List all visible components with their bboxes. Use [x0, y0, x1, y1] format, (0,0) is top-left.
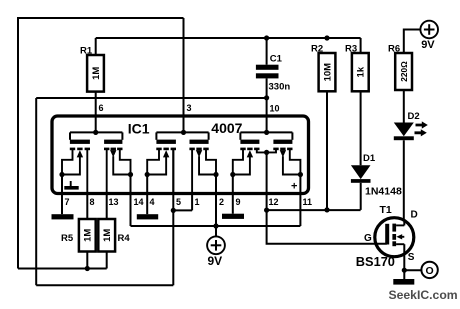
- resistor R5: [61, 219, 96, 252]
- svg-text:4: 4: [150, 197, 155, 207]
- svg-text:SeekIC.com: SeekIC.com: [389, 288, 458, 302]
- wire T1 source lead: [402, 254, 407, 273]
- node R2 top junction: [324, 35, 329, 40]
- svg-text:6: 6: [99, 103, 104, 113]
- svg-text:1M: 1M: [102, 229, 113, 242]
- svg-text:D: D: [411, 210, 418, 221]
- svg-text:12: 12: [269, 197, 279, 207]
- wire pin 9 rail: [232, 175, 234, 214]
- NMOS Q6 (pins 10,12,11 area): [267, 140, 303, 177]
- svg-text:9V: 9V: [208, 254, 223, 268]
- wire pin1 to pin5 link: [171, 195, 192, 213]
- svg-text:220Ω: 220Ω: [399, 61, 409, 82]
- pin labels top 6 3 10: [99, 103, 280, 113]
- capacitor C1: [256, 54, 290, 93]
- diode D1 1N4148: [351, 153, 402, 210]
- svg-text:9V: 9V: [421, 39, 435, 51]
- wire R1 bottom to pin 6: [95, 92, 97, 133]
- ground T1 source: [393, 270, 414, 284]
- svg-text:T1: T1: [380, 204, 392, 216]
- svg-text:10M: 10M: [322, 63, 333, 82]
- svg-text:S: S: [408, 252, 415, 263]
- svg-text:R4: R4: [118, 233, 131, 244]
- svg-text:R6: R6: [388, 44, 400, 55]
- wire pin 14 rail: [130, 175, 132, 195]
- svg-text:14: 14: [134, 197, 144, 207]
- wire supply rail y38: [96, 38, 361, 55]
- battery 9V top right: [420, 21, 438, 52]
- ground pin 9: [222, 214, 244, 219]
- wire R5 bottom lead: [86, 252, 88, 269]
- ground pin 4: [137, 214, 158, 219]
- resistor R4: [98, 219, 130, 252]
- svg-text:BS170: BS170: [356, 254, 395, 269]
- svg-text:2: 2: [219, 197, 224, 207]
- transistor T1 BS170: [356, 204, 418, 269]
- svg-text:1k: 1k: [356, 66, 367, 77]
- wire R5/R4 bottom rail: [18, 266, 107, 271]
- resistor R3: [345, 44, 369, 92]
- wire pin 11 rail: [299, 175, 301, 195]
- wire pin 4 rail: [146, 175, 148, 215]
- wire feedback y98 loop: [36, 98, 266, 285]
- resistor R6: [388, 44, 412, 91]
- wire pin 10 gate tee: [240, 130, 292, 140]
- svg-text:1M: 1M: [91, 67, 102, 80]
- wire pin 6 gate tee: [70, 130, 122, 140]
- svg-text:13: 13: [109, 197, 119, 207]
- wire C1 bottom to pin 10: [264, 78, 269, 132]
- PMOS Q3 (pins 3,4,5 area): [145, 140, 176, 195]
- svg-text:IC1: IC1: [128, 120, 150, 136]
- PMOS Q1 (pins 6,7,8 area): [59, 140, 90, 195]
- svg-text:G: G: [364, 233, 372, 244]
- wire pin 5 lead: [172, 150, 174, 195]
- output terminal O: [421, 262, 437, 278]
- svg-text:D2: D2: [408, 111, 420, 122]
- wire R4 top lead from pin 13: [106, 195, 108, 220]
- svg-text:R2: R2: [311, 44, 323, 55]
- watermark SeekIC.com: [389, 288, 458, 302]
- op-amp IC1 4007 outline: [52, 116, 309, 194]
- wire C1 top lead: [264, 35, 269, 64]
- svg-text:4007: 4007: [211, 120, 242, 136]
- NMOS Q4 (pins 3,1,2 area): [189, 140, 218, 195]
- svg-text:+: +: [291, 181, 297, 193]
- wire outer top loop: [18, 17, 184, 269]
- ground pin 7: [52, 214, 74, 219]
- wire R3 bottom to D1: [360, 91, 362, 165]
- svg-text:9: 9: [236, 197, 241, 207]
- wire pin 3 gate tee: [156, 130, 208, 140]
- svg-text:R3: R3: [345, 44, 357, 55]
- wire bottom loop to pin 5: [36, 195, 173, 286]
- svg-text:5: 5: [176, 197, 181, 207]
- wire pin 7 rail: [61, 175, 63, 215]
- wire R6 top to 9V battery: [404, 30, 421, 54]
- NMOS Q2 (pins 6,13,14 area): [104, 140, 133, 195]
- svg-text:8: 8: [90, 197, 95, 207]
- wire top loop to pin 3: [183, 18, 185, 132]
- wire R4 bottom lead: [106, 252, 108, 269]
- svg-text:R5: R5: [61, 233, 74, 244]
- svg-text:O: O: [426, 265, 434, 277]
- wire to output terminal: [404, 269, 421, 271]
- svg-text:1: 1: [195, 197, 200, 207]
- wire pin12 to R2/D1 junction: [267, 207, 361, 212]
- pin labels bottom row: [65, 197, 313, 207]
- wire 9V rail to pins 14,2,11: [131, 195, 301, 229]
- svg-text:R1: R1: [80, 46, 93, 57]
- svg-text:11: 11: [303, 197, 313, 207]
- svg-text:10: 10: [270, 103, 280, 113]
- wire pin 2 rail: [215, 175, 217, 227]
- svg-text:D1: D1: [363, 153, 376, 164]
- node pin 12 trunk junction: [264, 150, 269, 210]
- LED D2: [394, 90, 428, 220]
- wire R2 bottom lead: [326, 91, 328, 210]
- PMOS Q5 (pins 10,9,12 area): [230, 140, 266, 177]
- svg-text:C1: C1: [270, 54, 283, 65]
- resistor R1: [80, 46, 104, 92]
- svg-text:1N4148: 1N4148: [365, 185, 402, 197]
- svg-text:3: 3: [187, 103, 192, 113]
- svg-text:7: 7: [65, 197, 70, 207]
- substrate plus sign inside IC: [291, 181, 297, 193]
- substrate bar VSS inside IC: [64, 181, 78, 190]
- wire gate drive from pin 12: [264, 208, 387, 244]
- battery 9V bottom: [207, 226, 225, 268]
- svg-text:1M: 1M: [83, 229, 94, 242]
- svg-text:330n: 330n: [269, 82, 291, 93]
- wire R5 top lead from pin 8: [86, 195, 88, 220]
- resistor R2: [311, 44, 335, 92]
